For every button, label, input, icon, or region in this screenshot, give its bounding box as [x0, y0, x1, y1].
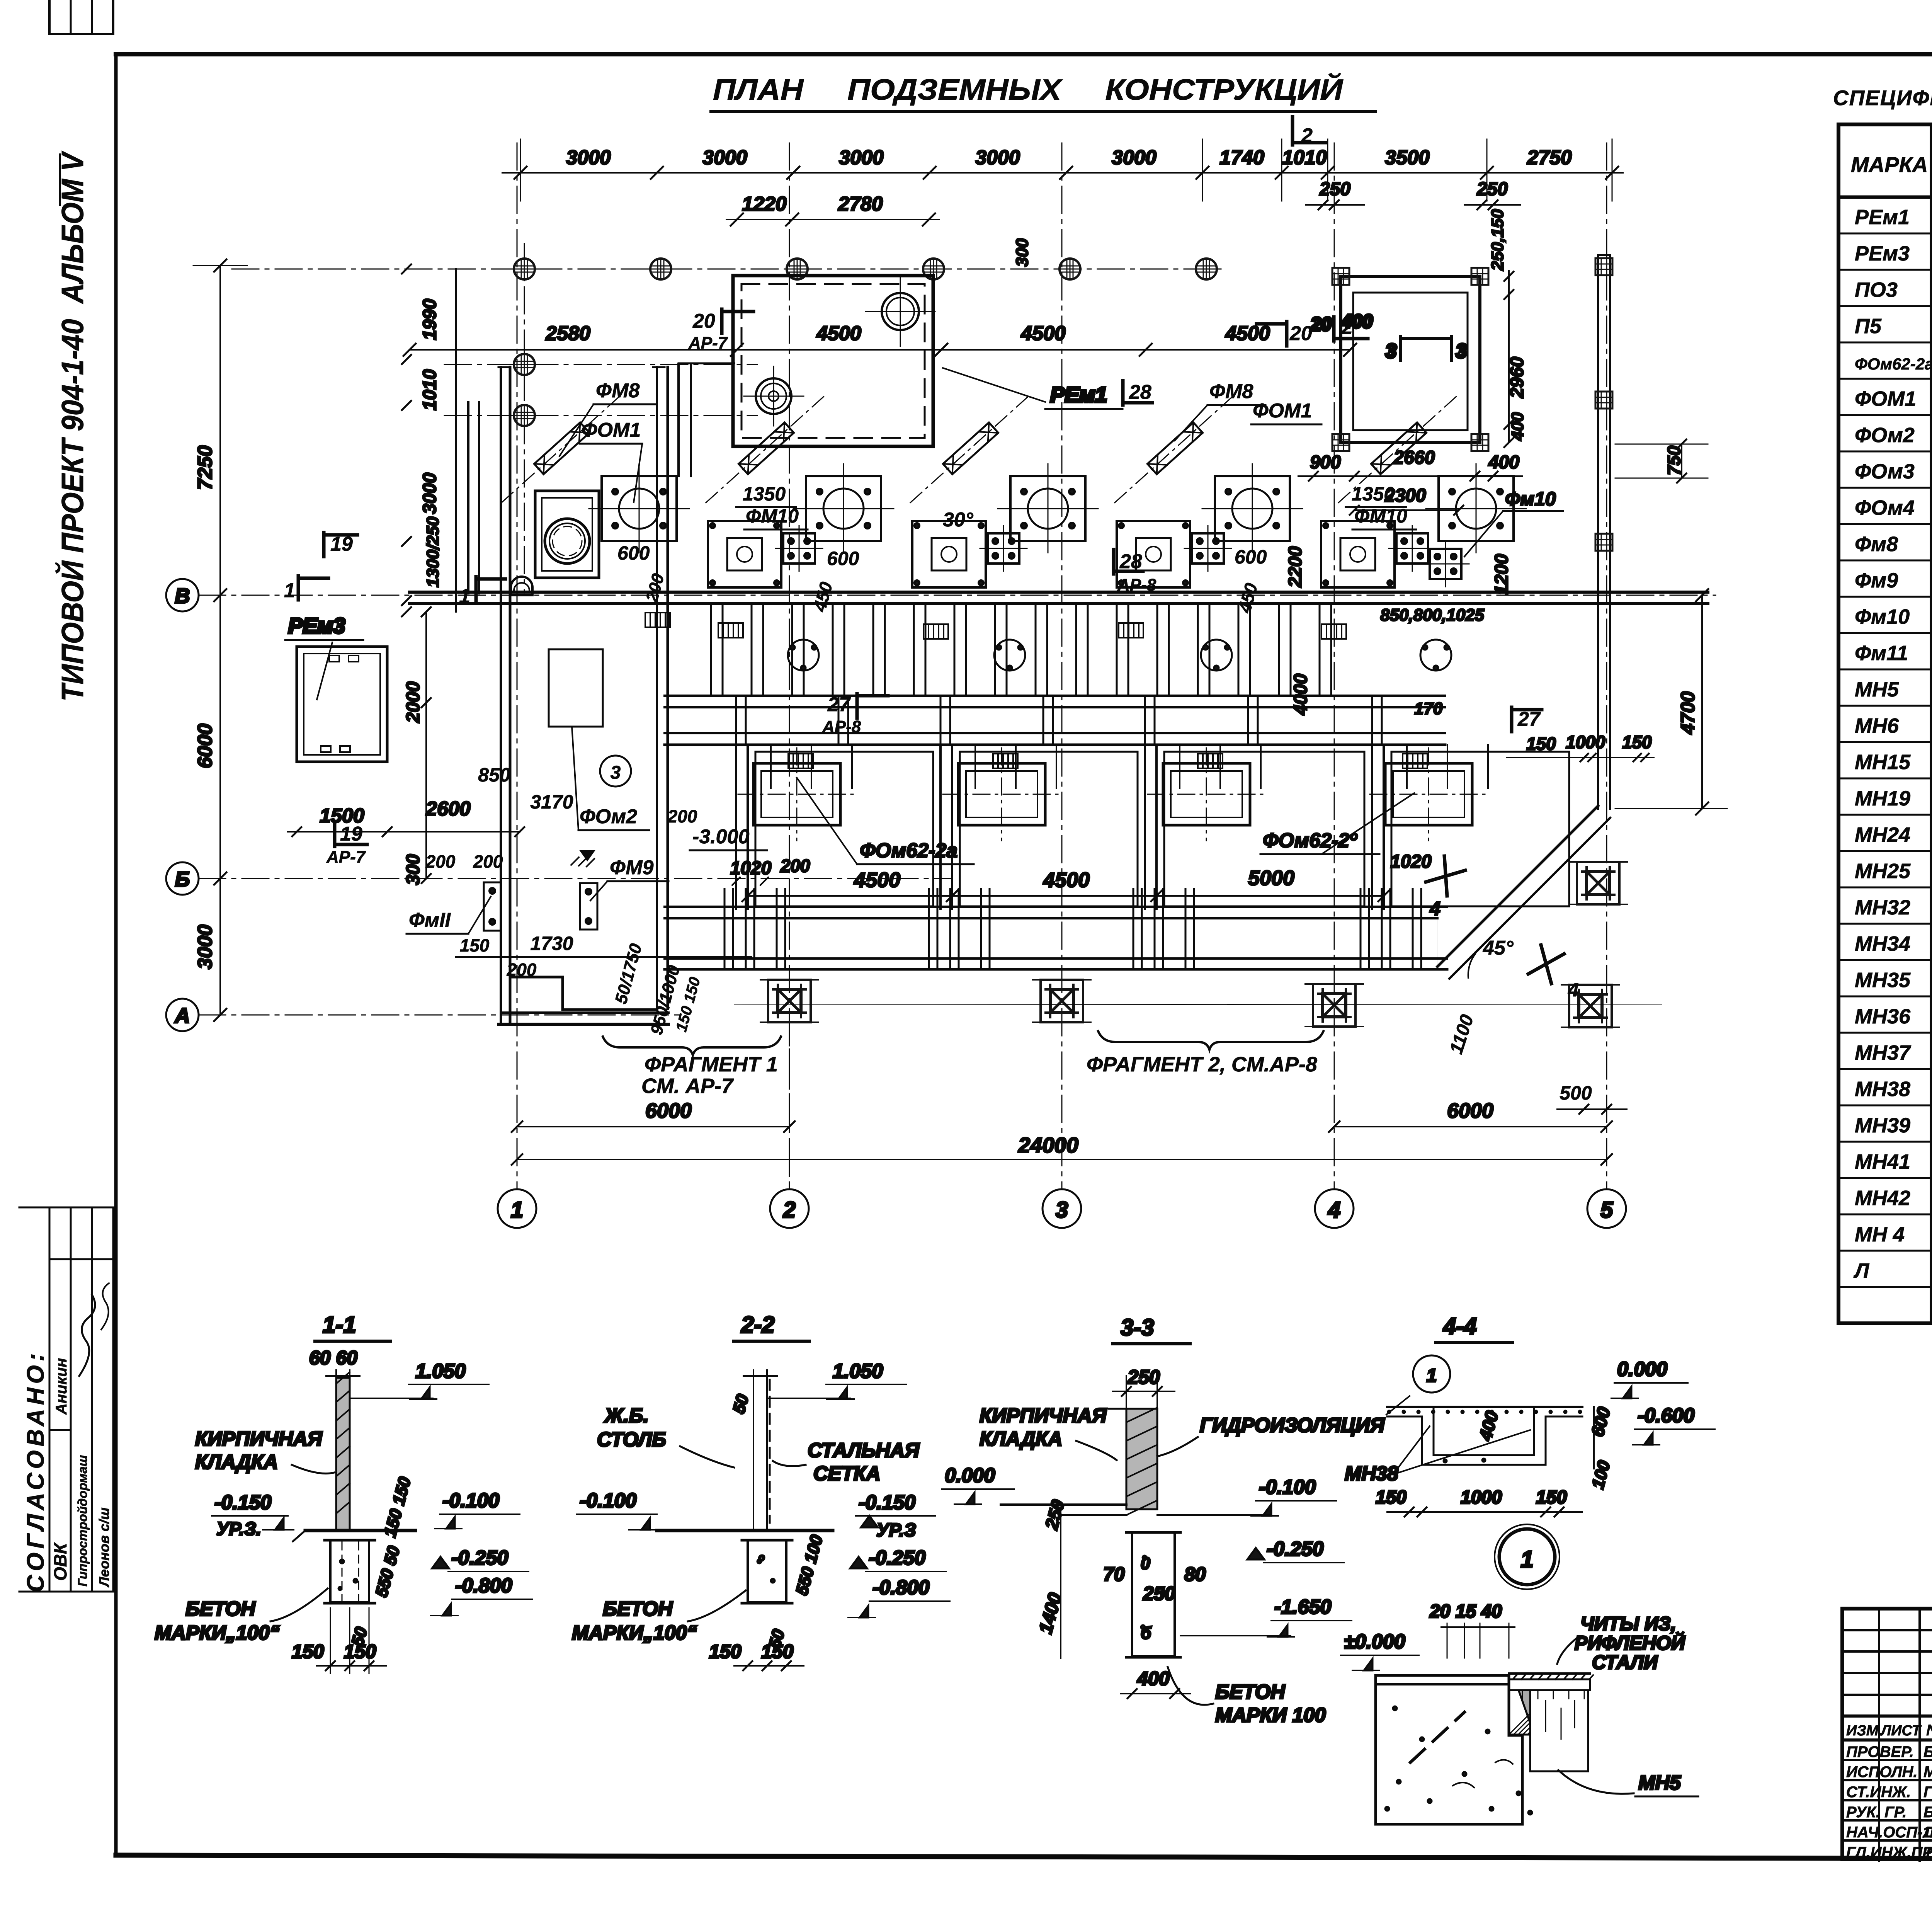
bay dimension texts 4500 4500 5000 [730, 778, 1465, 919]
svg-text:1300/250: 1300/250 [423, 516, 442, 587]
svg-text:Фм10: Фм10 [1855, 605, 1910, 628]
svg-text:АР-7: АР-7 [688, 334, 728, 352]
spec table rows [1838, 233, 1932, 1287]
svg-text:28: 28 [1129, 381, 1151, 403]
svg-text:МН19: МН19 [1855, 787, 1910, 810]
svg-text:200: 200 [642, 571, 668, 604]
svg-text:№ ДОКУМ.: № ДОКУМ. [1926, 1722, 1932, 1739]
svg-text:2780: 2780 [838, 193, 883, 215]
svg-text:1000: 1000 [1461, 1487, 1502, 1508]
svg-text:РЕм1: РЕм1 [1855, 206, 1910, 229]
svg-text:3: 3 [1056, 1197, 1068, 1222]
svg-text:4-4: 4-4 [1443, 1313, 1477, 1339]
svg-text:Б: Б [175, 868, 190, 891]
svg-text:1500: 1500 [320, 805, 364, 827]
svg-text:ГИДРОИЗОЛЯЦИЯ: ГИДРОИЗОЛЯЦИЯ [1200, 1414, 1385, 1437]
svg-text:МН36: МН36 [1855, 1005, 1911, 1028]
svg-text:30°: 30° [943, 509, 974, 531]
svg-text:5000: 5000 [1248, 867, 1294, 890]
svg-text:ФМ8: ФМ8 [1209, 380, 1253, 403]
svg-text:ГЛ.ИНЖ.ПР: ГЛ.ИНЖ.ПР [1846, 1844, 1932, 1861]
svg-text:400: 400 [1137, 1668, 1170, 1689]
svg-text:ФОМ1: ФОМ1 [1253, 400, 1312, 422]
svg-text:-0.800: -0.800 [872, 1577, 930, 1599]
svg-text:1020: 1020 [730, 858, 772, 878]
svg-text:20: 20 [692, 310, 715, 332]
svg-text:-0.100: -0.100 [1259, 1476, 1316, 1498]
svg-text:ГОРСКАЯ: ГОРСКАЯ [1923, 1784, 1932, 1801]
svg-text:КИРПИЧНАЯ: КИРПИЧНАЯ [195, 1428, 323, 1450]
svg-text:6000: 6000 [194, 724, 216, 768]
svg-text:6000: 6000 [1447, 1099, 1493, 1122]
svg-text:4: 4 [1429, 898, 1440, 919]
svg-text:ПЛАН ПОДЗЕМНЫХ КОНСТРУ: ПЛАН ПОДЗЕМНЫХ КОНСТРУКЦИЙ [713, 73, 1343, 106]
svg-text:СТ.ИНЖ.: СТ.ИНЖ. [1846, 1784, 1911, 1801]
svg-text:5: 5 [1600, 1197, 1613, 1222]
axis circles left: В Б А [166, 579, 199, 1031]
svg-text:150: 150 [1622, 732, 1652, 752]
svg-text:4500: 4500 [854, 868, 900, 892]
svg-text:КИРПИЧНАЯ: КИРПИЧНАЯ [980, 1405, 1107, 1427]
svg-text:МОМОТОВ: МОМОТОВ [1923, 1764, 1932, 1781]
svg-text:ОВК: ОВК [50, 1542, 70, 1581]
column grid hatched circles [514, 259, 1217, 426]
svg-text:б: б [1141, 1624, 1152, 1643]
svg-text:1: 1 [284, 579, 295, 602]
svg-text:4500: 4500 [816, 322, 861, 345]
svg-text:МН5: МН5 [1638, 1772, 1681, 1794]
svg-text:3000: 3000 [566, 146, 611, 169]
svg-text:МН5: МН5 [1855, 678, 1899, 701]
svg-text:ФОм4: ФОм4 [1855, 496, 1915, 519]
bay pit outlines [755, 752, 1569, 906]
svg-text:-3.000: -3.000 [692, 826, 750, 848]
svg-text:300: 300 [1013, 238, 1032, 267]
svg-text:4500: 4500 [1020, 322, 1066, 345]
svg-text:250: 250 [1041, 1498, 1068, 1532]
approval table left [19, 1207, 113, 1592]
title block (stamp) bottom right [1842, 1609, 1932, 1861]
svg-text:УР.З: УР.З [876, 1520, 916, 1541]
svg-text:4500: 4500 [1225, 322, 1270, 345]
svg-text:150: 150 [1536, 1487, 1567, 1508]
left sidebar vertical text: album designation [55, 151, 90, 701]
svg-text:Л: Л [1853, 1259, 1870, 1282]
svg-text:-0.250: -0.250 [869, 1547, 926, 1569]
svg-text:400: 400 [1488, 452, 1519, 473]
section 3-3 [942, 1314, 1385, 1726]
svg-text:0: 0 [1141, 1554, 1150, 1573]
svg-text:70: 70 [1103, 1563, 1125, 1585]
bay divider walls [736, 745, 1488, 909]
svg-text:-0.150: -0.150 [859, 1491, 916, 1514]
svg-text:Аникин: Аникин [53, 1358, 70, 1415]
svg-text:27: 27 [1517, 708, 1541, 730]
svg-text:Фм11: Фм11 [1855, 642, 1908, 665]
dim 250 pair near room 3 [1306, 179, 1520, 209]
detail 1 (node) [1341, 1524, 1698, 1824]
svg-text:20: 20 [1289, 322, 1312, 345]
svg-text:60 60: 60 60 [309, 1347, 357, 1369]
svg-text:3000: 3000 [839, 146, 884, 169]
45 degree labels [1446, 937, 1627, 1114]
svg-text:250: 250 [1319, 179, 1350, 199]
machine foundation groups [497, 389, 1526, 587]
svg-text:150: 150 [292, 1641, 324, 1662]
svg-text:3000: 3000 [1112, 146, 1156, 169]
inner left dim chain 1990/1010/3000/1300/250 [402, 264, 456, 885]
svg-text:1-1: 1-1 [323, 1312, 356, 1338]
svg-text:45°: 45° [1483, 937, 1514, 959]
svg-text:ФМ8: ФМ8 [596, 380, 640, 402]
right-side rotated dims [1013, 209, 1727, 815]
svg-text:ИСПОЛН.: ИСПОЛН. [1846, 1764, 1918, 1781]
machine row labels [560, 380, 1416, 615]
svg-text:-0.250: -0.250 [451, 1547, 509, 1569]
svg-text:1220: 1220 [742, 193, 787, 215]
drawing main title [711, 73, 1376, 111]
svg-text:ЛОЗОВ: ЛОЗОВ [1922, 1824, 1932, 1841]
svg-text:300: 300 [403, 854, 423, 885]
svg-text:ФМ10: ФМ10 [1354, 505, 1407, 527]
svg-text:1100: 1100 [1446, 1012, 1478, 1057]
svg-text:ФРАГМЕНТ 2, СМ.АР-8: ФРАГМЕНТ 2, СМ.АР-8 [1087, 1053, 1317, 1076]
svg-text:3: 3 [611, 763, 621, 783]
svg-text:ТИПОВОЙ ПРОЕКТ 904-1-40 АЛЬБО: ТИПОВОЙ ПРОЕКТ 904-1-40 АЛЬБОМ V [55, 151, 90, 701]
tank REm3 (left annex) [285, 613, 387, 762]
svg-text:ФОМ1: ФОМ1 [582, 419, 641, 441]
svg-text:БЕТОН: БЕТОН [1215, 1681, 1286, 1703]
specification table grid [1838, 124, 1932, 1323]
svg-text:РИФЛЕНОЙ: РИФЛЕНОЙ [1575, 1632, 1685, 1654]
svg-text:1010: 1010 [1282, 146, 1327, 169]
svg-text:1990: 1990 [420, 299, 440, 340]
section 1-1 [155, 1312, 532, 1674]
svg-text:150: 150 [344, 1641, 376, 1662]
svg-text:4000: 4000 [1291, 674, 1311, 715]
svg-text:550 100: 550 100 [792, 1533, 827, 1597]
svg-text:Гипростройдормаш: Гипростройдормаш [75, 1455, 90, 1587]
svg-text:500: 500 [1560, 1082, 1592, 1104]
svg-text:±0.000: ±0.000 [1344, 1631, 1405, 1653]
teeth circles [788, 640, 1451, 671]
svg-text:РЕм3: РЕм3 [1855, 242, 1910, 265]
svg-text:МАРКИ„100“: МАРКИ„100“ [155, 1622, 280, 1644]
title block texts [1846, 1628, 1932, 1862]
svg-text:4700: 4700 [1677, 691, 1699, 735]
walls W2 and W3 [665, 696, 1445, 745]
svg-text:200: 200 [507, 960, 537, 980]
svg-text:3500: 3500 [1385, 146, 1430, 169]
svg-text:МАРКИ„100“: МАРКИ„100“ [572, 1622, 697, 1644]
svg-text:600: 600 [1587, 1405, 1614, 1439]
svg-text:СТАЛЬНАЯ: СТАЛЬНАЯ [808, 1439, 920, 1462]
svg-text:БЕСКОРОВАЙНЫЙ: БЕСКОРОВАЙНЫЙ [1923, 1742, 1932, 1760]
svg-text:2580: 2580 [545, 322, 590, 345]
svg-text:1000: 1000 [1566, 732, 1605, 752]
svg-text:2: 2 [783, 1197, 796, 1222]
svg-text:ФМ10: ФМ10 [746, 505, 799, 527]
svg-text:3000: 3000 [702, 146, 747, 169]
svg-text:600: 600 [827, 548, 859, 569]
svg-text:Фм9: Фм9 [1855, 569, 1898, 592]
svg-text:БЕТОН: БЕТОН [603, 1598, 673, 1620]
svg-text:ФОм62-2а: ФОм62-2а [1855, 355, 1932, 373]
svg-text:400: 400 [1508, 412, 1527, 441]
svg-text:250,150: 250,150 [1488, 209, 1507, 271]
svg-text:3: 3 [1386, 340, 1396, 362]
svg-text:20: 20 [1310, 314, 1332, 335]
dim chain 1220/2780 [726, 193, 939, 226]
svg-text:2750: 2750 [1527, 146, 1572, 169]
svg-text:1: 1 [511, 1197, 523, 1222]
svg-text:-0.150: -0.150 [214, 1491, 272, 1514]
svg-text:150: 150 [709, 1641, 742, 1662]
svg-text:600: 600 [617, 542, 650, 564]
svg-text:А: А [174, 1004, 190, 1027]
svg-text:МН15: МН15 [1855, 751, 1911, 774]
svg-text:150: 150 [1376, 1487, 1406, 1508]
svg-text:3000: 3000 [420, 473, 440, 514]
svg-text:900: 900 [1310, 452, 1341, 473]
svg-text:550 50: 550 50 [372, 1544, 403, 1599]
svg-text:МН41: МН41 [1855, 1150, 1910, 1173]
svg-text:МН25: МН25 [1855, 860, 1911, 883]
svg-text:4500: 4500 [1043, 868, 1090, 892]
svg-text:80: 80 [1184, 1563, 1206, 1585]
svg-text:2960: 2960 [1507, 357, 1527, 398]
svg-text:КЛАДКА: КЛАДКА [195, 1451, 278, 1473]
grate/ladder symbols [645, 613, 1427, 768]
top-left corner cut table [49, 0, 113, 34]
X foundation pads [734, 862, 1662, 1188]
svg-text:МАРКА: МАРКА [1851, 152, 1928, 177]
svg-text:1200: 1200 [1492, 554, 1512, 595]
left dim chain 7250/6000/3000 [193, 259, 247, 1021]
svg-text:1740: 1740 [1219, 146, 1264, 169]
svg-text:РЕм1: РЕм1 [1050, 382, 1107, 407]
svg-text:МН32: МН32 [1855, 896, 1910, 919]
dim chain 2580 / 4500 4500 4500 at y=905 [403, 322, 1356, 356]
svg-text:3000: 3000 [975, 146, 1020, 169]
svg-text:МН38: МН38 [1345, 1462, 1398, 1485]
svg-text:ТЮРИН: ТЮРИН [1923, 1844, 1932, 1861]
svg-text:3000: 3000 [194, 924, 216, 969]
svg-text:-0.250: -0.250 [1267, 1538, 1324, 1560]
svg-text:150: 150 [1526, 734, 1556, 754]
vertical axis lines 1-5 [517, 143, 1607, 1188]
svg-text:600: 600 [1235, 546, 1267, 568]
svg-text:250: 250 [1476, 179, 1508, 199]
svg-text:850: 850 [478, 764, 510, 786]
section marks row [284, 117, 1542, 867]
svg-text:-0.100: -0.100 [442, 1490, 500, 1512]
svg-text:1.050: 1.050 [833, 1360, 883, 1382]
svg-text:МН 4: МН 4 [1855, 1223, 1905, 1246]
svg-text:3: 3 [1456, 340, 1467, 362]
dim 1500 2600 under REm3 [288, 798, 524, 836]
svg-text:ФРАГМЕНТ 1: ФРАГМЕНТ 1 [645, 1053, 778, 1076]
svg-text:50: 50 [729, 1392, 752, 1415]
svg-text:200: 200 [780, 856, 810, 876]
svg-text:П5: П5 [1855, 315, 1882, 338]
svg-text:УР.З.: УР.З. [216, 1519, 261, 1539]
svg-text:2000: 2000 [403, 681, 423, 723]
section 4-4 [1345, 1313, 1715, 1517]
svg-text:1.050: 1.050 [415, 1360, 466, 1382]
spec table header text [1851, 141, 1932, 193]
svg-text:РЕм3: РЕм3 [288, 613, 345, 638]
svg-text:ФМ9: ФМ9 [610, 856, 654, 879]
svg-text:ФОм62-2º: ФОм62-2º [1263, 829, 1358, 852]
svg-text:3-3: 3-3 [1121, 1314, 1154, 1340]
svg-text:2200: 2200 [1285, 546, 1306, 588]
svg-text:150: 150 [761, 1641, 794, 1662]
svg-text:º: º [758, 1553, 765, 1570]
svg-text:250: 250 [1127, 1366, 1160, 1388]
axis circles bottom: 1-5 [498, 1189, 1626, 1228]
svg-text:МН24: МН24 [1855, 823, 1910, 846]
svg-text:НАЧ.ОСП-1: НАЧ.ОСП-1 [1846, 1824, 1931, 1841]
svg-text:0.000: 0.000 [1617, 1358, 1667, 1381]
svg-text:400: 400 [1475, 1409, 1502, 1443]
svg-text:1350: 1350 [743, 483, 786, 505]
svg-text:6000: 6000 [645, 1099, 692, 1122]
room 3 (top right plate) [1310, 268, 1488, 451]
svg-text:АР-7: АР-7 [326, 848, 366, 867]
svg-text:МН38: МН38 [1855, 1078, 1910, 1101]
top dimension chain 3000x5,1740,1010,3500,2750 [502, 139, 1623, 201]
svg-text:ЧИТЫ ИЗ,: ЧИТЫ ИЗ, [1580, 1613, 1676, 1634]
bottom dimension rows 6000/24000 [512, 1099, 1612, 1165]
svg-text:ИЗМ.: ИЗМ. [1846, 1723, 1883, 1739]
svg-text:ПРОВЕР.: ПРОВЕР. [1846, 1743, 1914, 1760]
svg-text:0.000: 0.000 [945, 1464, 995, 1487]
horizontal axis lines [199, 243, 1716, 1015]
svg-text:МН37: МН37 [1855, 1041, 1912, 1064]
svg-text:400: 400 [1341, 312, 1372, 332]
svg-text:СТОЛБ: СТОЛБ [597, 1428, 666, 1451]
svg-text:-1.650: -1.650 [1274, 1596, 1332, 1618]
svg-text:Ж.Б.: Ж.Б. [604, 1405, 649, 1427]
right wall and diagonal cut [1437, 255, 1612, 979]
svg-text:-0.800: -0.800 [455, 1575, 512, 1597]
svg-text:20 15 40: 20 15 40 [1429, 1601, 1502, 1622]
svg-text:1730: 1730 [530, 933, 573, 954]
tank REm1 [733, 276, 1122, 446]
svg-text:170: 170 [1414, 699, 1443, 718]
svg-text:МАРКИ 100: МАРКИ 100 [1215, 1704, 1326, 1726]
svg-text:250: 250 [1143, 1583, 1175, 1604]
svg-text:ПО3: ПО3 [1855, 278, 1898, 301]
svg-text:БЕСКОРОВАЙНЫЙ: БЕСКОРОВАЙНЫЙ [1923, 1803, 1932, 1821]
svg-text:3170: 3170 [530, 791, 573, 813]
svg-text:БЕТОН: БЕТОН [185, 1598, 256, 1620]
svg-text:МН34: МН34 [1855, 932, 1910, 955]
svg-text:1: 1 [1520, 1546, 1533, 1572]
svg-text:24000: 24000 [1018, 1133, 1078, 1157]
svg-text:Леонов с/ш: Леонов с/ш [96, 1507, 112, 1588]
svg-text:1: 1 [1427, 1365, 1437, 1386]
svg-text:МН42: МН42 [1855, 1187, 1910, 1210]
svg-text:В: В [175, 584, 190, 608]
svg-text:2-2: 2-2 [741, 1312, 775, 1338]
svg-text:850,800,1025: 850,800,1025 [1380, 606, 1485, 625]
svg-text:-0.600: -0.600 [1638, 1405, 1695, 1427]
labels in left room area [406, 727, 767, 1037]
svg-text:7250: 7250 [194, 445, 216, 490]
svg-text:1020: 1020 [1390, 851, 1432, 872]
svg-text:ФмII: ФмII [409, 909, 451, 931]
svg-text:200: 200 [667, 806, 697, 826]
svg-text:ФОм2: ФОм2 [1855, 424, 1915, 447]
svg-text:СОГЛАСОВАНО:: СОГЛАСОВАНО: [22, 1350, 49, 1592]
svg-text:СМ. АР-7: СМ. АР-7 [641, 1074, 734, 1098]
svg-text:100: 100 [1588, 1458, 1614, 1491]
svg-text:1010: 1010 [420, 369, 440, 410]
svg-text:200: 200 [473, 851, 503, 872]
svg-text:Фм8: Фм8 [1855, 533, 1898, 556]
svg-text:2600: 2600 [425, 798, 471, 820]
section 2-2 [572, 1312, 950, 1670]
svg-text:-0.100: -0.100 [580, 1490, 637, 1512]
svg-text:ФОМ1: ФОМ1 [1855, 387, 1916, 410]
svg-text:200: 200 [425, 851, 456, 872]
svg-text:ФОм3: ФОм3 [1855, 460, 1915, 483]
teeth band between B wall and W2 [711, 604, 1331, 696]
svg-text:СТАЛИ: СТАЛИ [1592, 1651, 1658, 1673]
svg-text:50/1750: 50/1750 [611, 941, 646, 1006]
svg-text:28: 28 [1119, 550, 1142, 573]
svg-text:МН6: МН6 [1855, 714, 1899, 737]
svg-text:ЛИСТ: ЛИСТ [1880, 1723, 1922, 1739]
svg-text:ФОм2: ФОм2 [580, 805, 637, 828]
svg-text:МН35: МН35 [1855, 969, 1911, 992]
svg-text:РУК. ГР.: РУК. ГР. [1846, 1804, 1906, 1821]
svg-text:ФОм62-2а: ФОм62-2а [860, 839, 957, 862]
svg-text:4: 4 [1568, 979, 1579, 1001]
bottom walls BW1 BW2 [665, 889, 1447, 969]
fragment braces and labels [603, 1031, 1323, 1098]
svg-text:СПЕЦИФИКАЦИЯ ЭЛЕМЕНТОВ, ЗАМАРК: СПЕЦИФИКАЦИЯ ЭЛЕМЕНТОВ, ЗАМАРКИРОВАННЫХ … [1833, 86, 1932, 110]
building: left tall room walls [468, 367, 668, 1024]
svg-text:МН39: МН39 [1855, 1114, 1910, 1137]
svg-text:4: 4 [1328, 1197, 1340, 1222]
svg-text:150: 150 [460, 935, 490, 955]
svg-text:КЛАДКА: КЛАДКА [980, 1428, 1062, 1450]
svg-text:1350: 1350 [1352, 483, 1395, 505]
svg-text:СЕТКА: СЕТКА [813, 1462, 881, 1485]
B axis main wall [410, 363, 1708, 604]
